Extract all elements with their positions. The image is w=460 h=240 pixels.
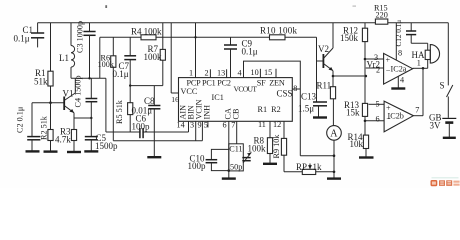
svg-text:10: 10: [251, 68, 259, 77]
scan speck: [105, 5, 356, 8]
svg-text:5: 5: [204, 121, 208, 130]
svg-text:1: 1: [189, 69, 193, 78]
ground R8: [263, 163, 277, 165]
wire pin14 bus: [106, 78, 189, 132]
capacitor C2: [16, 103, 41, 152]
svg-text:INH: INH: [203, 105, 212, 120]
svg-text:0.1μ: 0.1μ: [113, 69, 129, 79]
svg-text:0.1μ: 0.1μ: [242, 47, 258, 57]
svg-text:V2: V2: [318, 44, 329, 54]
battery GB: [429, 113, 456, 138]
svg-text:R2 51k: R2 51k: [40, 115, 49, 140]
svg-text:PCP PC1 PC2: PCP PC1 PC2: [187, 78, 232, 87]
node V2 emitter: [332, 75, 335, 78]
svg-text:15: 15: [264, 68, 272, 77]
wire pin16: [171, 23, 178, 93]
pin 5 tick IC1: [207, 121, 209, 127]
op-amp IC2b: [376, 100, 420, 132]
capacitor C1: [14, 23, 45, 48]
svg-text:10k: 10k: [350, 139, 364, 149]
svg-text:Vr2: Vr2: [367, 60, 380, 70]
op-amp IC2a: [367, 48, 421, 84]
ground C8: [147, 156, 161, 158]
wire emitter: [74, 117, 93, 119]
ground meter: [327, 177, 341, 179]
svg-text:VCC: VCC: [181, 87, 198, 96]
wire pin1: [194, 23, 196, 78]
resistor R11: [317, 81, 336, 126]
svg-text:C12 0.1μ: C12 0.1μ: [395, 20, 403, 47]
wire R10 to V2 base: [317, 37, 324, 61]
resistor R12: [340, 23, 368, 104]
svg-text:1k: 1k: [313, 162, 323, 172]
svg-text:L1: L1: [59, 53, 69, 63]
svg-text:SF ZEN: SF ZEN: [257, 79, 285, 88]
capacitor C3: [76, 21, 96, 78]
svg-text:9: 9: [198, 121, 202, 130]
svg-text:15k: 15k: [346, 108, 360, 118]
wire R12 to pin3: [364, 58, 384, 61]
svg-text:2: 2: [205, 69, 209, 78]
ground GB: [443, 137, 456, 139]
meter A: [327, 126, 342, 179]
svg-text:7: 7: [231, 121, 235, 130]
resistor R4: [131, 27, 162, 40]
inductor L1: [59, 23, 75, 79]
ground R14: [359, 156, 374, 158]
svg-text:VCOUT: VCOUT: [234, 85, 258, 94]
svg-text:50p: 50p: [230, 162, 242, 171]
resistor R15: [374, 4, 388, 25]
resistor R5: [115, 99, 133, 132]
capacitor C8: [132, 86, 161, 158]
svg-text:51k: 51k: [34, 77, 48, 87]
pin 13 tick IC1: [226, 69, 228, 77]
svg-text:4: 4: [400, 76, 404, 85]
transistor V2: [318, 23, 333, 87]
wire V2 emitter to IC2a: [333, 68, 384, 77]
wire R4-R10 bus: [100, 37, 317, 78]
op-amp U IC1 box: [179, 61, 301, 156]
svg-text:6: 6: [223, 121, 227, 130]
wire pin9 bus: [113, 121, 202, 140]
node V1 base junction: [49, 101, 52, 104]
ground C5: [84, 150, 98, 152]
svg-text:7: 7: [415, 106, 419, 115]
wire V+ top rail: [38, 22, 449, 24]
svg-text:IC2a: IC2a: [391, 65, 407, 74]
ground IC2a pin4: [391, 76, 405, 88]
svg-text:5: 5: [376, 100, 380, 109]
svg-text:3: 3: [190, 121, 194, 130]
resistor R6: [98, 37, 116, 140]
svg-text:4.7k: 4.7k: [55, 135, 71, 145]
capacitor C9: [224, 37, 258, 77]
wire IC2a output: [413, 67, 428, 70]
wire R13 junction to pin6: [364, 120, 384, 123]
capacitor C6: [132, 114, 151, 139]
svg-text:R10 100k: R10 100k: [260, 26, 298, 36]
svg-text:C13: C13: [301, 92, 317, 102]
capacitor C12: [395, 20, 428, 47]
svg-text:100k: 100k: [248, 144, 267, 154]
svg-text:12: 12: [273, 120, 281, 129]
IC1 inside labels: [179, 78, 293, 119]
svg-text:C3 1000p: C3 1000p: [76, 21, 85, 53]
capacitor C5: [85, 118, 118, 151]
resistor R14: [348, 132, 369, 158]
resistor R13: [344, 100, 368, 135]
resistor R3: [55, 127, 77, 153]
switch S: [440, 23, 453, 118]
svg-text:1500p: 1500p: [95, 141, 118, 151]
resistor R9: [272, 121, 287, 172]
capacitor C13: [298, 61, 327, 118]
potentiometer RP: [284, 162, 334, 175]
svg-text:3V: 3V: [430, 121, 442, 131]
svg-text:R9 10k: R9 10k: [272, 134, 281, 159]
wire pin5 stub: [369, 103, 385, 105]
capacitor C11 trimmer: [229, 121, 252, 171]
svg-text:IC2b: IC2b: [388, 112, 404, 121]
svg-text:6: 6: [376, 115, 380, 124]
ground R2: [44, 150, 58, 152]
svg-text:+: +: [386, 56, 391, 65]
svg-text:R4 100k: R4 100k: [131, 27, 162, 37]
resistor R8: [248, 121, 273, 164]
wire base: [32, 102, 64, 104]
resistor R7: [144, 23, 166, 86]
ground C10 C11: [222, 177, 236, 179]
IC1 pin16 label: [171, 95, 179, 104]
wire IC2a V+ pin8: [395, 23, 397, 61]
svg-text:220: 220: [376, 11, 388, 20]
capacitor C4: [74, 75, 98, 118]
capacitor C10: [188, 121, 231, 178]
svg-text:8: 8: [398, 48, 402, 57]
svg-text:R5 51k: R5 51k: [115, 99, 124, 124]
IC1 pin8 label: [293, 84, 297, 93]
svg-text:13: 13: [217, 69, 225, 78]
IC1 pin numbers bottom: [177, 120, 282, 130]
svg-text:11: 11: [258, 120, 266, 129]
speaker HA: [412, 43, 440, 68]
wire C8 node: [129, 84, 163, 86]
svg-text:100k: 100k: [144, 52, 163, 62]
pin 15 tick IC1: [275, 69, 277, 78]
svg-text:C2 0.1μ: C2 0.1μ: [16, 106, 25, 133]
capacitor C7: [113, 37, 137, 102]
svg-text:R11: R11: [317, 81, 332, 91]
svg-text:C4 1500p: C4 1500p: [74, 75, 83, 107]
pin 2 tick IC1: [209, 69, 211, 77]
svg-text:CB: CB: [231, 108, 240, 119]
svg-text:IC1: IC1: [212, 93, 224, 102]
svg-text:HA: HA: [412, 50, 425, 60]
svg-text:4: 4: [238, 69, 242, 78]
svg-text:100p: 100p: [132, 122, 151, 132]
transistor V1: [63, 78, 76, 129]
wire pin8 gnd: [292, 89, 334, 156]
svg-text:16: 16: [171, 95, 179, 104]
ground C2: [26, 150, 40, 152]
resistor R2: [40, 103, 54, 152]
wire IC2b output: [413, 68, 423, 115]
svg-text:150k: 150k: [340, 33, 359, 43]
svg-text:CSS: CSS: [277, 89, 293, 99]
svg-text:RP: RP: [296, 162, 307, 172]
ground C13: [313, 116, 327, 118]
svg-text:100p: 100p: [188, 161, 207, 171]
svg-text:14: 14: [177, 121, 185, 130]
resistor R1: [34, 23, 53, 103]
pin 10 tick IC1: [259, 69, 261, 78]
svg-text:C11: C11: [229, 144, 242, 153]
svg-text:100k: 100k: [98, 60, 115, 69]
wire collector node: [71, 77, 106, 79]
resistor R10: [260, 26, 298, 40]
watermark logo: [431, 177, 460, 186]
svg-text:R1 R2: R1 R2: [258, 105, 281, 114]
svg-text:1.5μ: 1.5μ: [298, 104, 314, 114]
svg-text:0.1μ: 0.1μ: [14, 34, 30, 44]
svg-text:S: S: [440, 81, 445, 91]
ground R3: [67, 151, 81, 153]
IC1 pin numbers top: [189, 68, 272, 78]
svg-text:A: A: [330, 129, 338, 140]
svg-text:C8: C8: [144, 96, 155, 106]
